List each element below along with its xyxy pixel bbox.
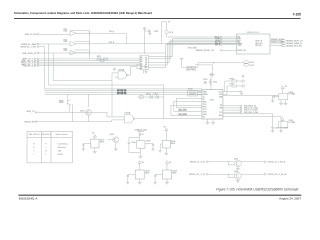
svg-text:Q923: Q923 — [234, 159, 238, 161]
U920 right pin fold 4 — [149, 43, 221, 65]
svg-text:E921: E921 — [250, 62, 254, 64]
USB data wire D- — [195, 63, 213, 68]
R927 pullup row2 — [223, 85, 245, 95]
wire USB_5V_EN input — [39, 33, 70, 35]
regulator3 right cap — [145, 144, 155, 151]
wire label TX_EN — [27, 111, 35, 113]
R926 pullup row1 — [225, 75, 245, 92]
SB9600 pin left labels — [214, 37, 220, 47]
SB9600 exit wire 2 — [270, 42, 282, 44]
svg-text:E922: E922 — [250, 65, 254, 67]
svg-text:UNSW_B+_RAW: UNSW_B+_RAW — [21, 43, 37, 46]
USB series resistors — [182, 66, 198, 68]
U920 pin labels — [140, 56, 147, 70]
RS232 row1 component label — [234, 159, 238, 161]
U920 right pin fold 2 — [149, 40, 221, 59]
regulator1 labels — [92, 133, 104, 144]
folded IC pin wire 1 — [176, 98, 202, 107]
RS232 row1 transistor Q923 — [235, 160, 242, 170]
buffer labels — [64, 22, 174, 59]
svg-text:7-105: 7-105 — [293, 13, 301, 17]
svg-text:RS232: RS232 — [58, 154, 63, 156]
NAND1 power stub — [113, 68, 116, 71]
wire vertical drop A — [45, 47, 203, 89]
regulator4 box — [162, 140, 170, 148]
bus wire 4 — [39, 63, 140, 65]
USB output wires to pads — [223, 106, 240, 112]
regulatorB power — [165, 161, 168, 170]
svg-text:Figure 7-105. HUE4040A USB/RS2: Figure 7-105. HUE4040A USB/RS232/SB9600 … — [216, 187, 299, 191]
U920 right pin fold 3 — [149, 42, 221, 63]
folded IC pin wire 2 — [174, 101, 202, 111]
footer date — [279, 197, 301, 201]
svg-text:RXD_B: RXD_B — [109, 42, 114, 44]
RS232 row2 terminal — [206, 173, 208, 175]
SB9600 connector box — [237, 34, 271, 54]
NAND gate U922A — [115, 71, 128, 79]
svg-text:Dead Battery: Dead Battery — [58, 143, 68, 146]
svg-text:GNDB: GNDB — [237, 44, 241, 46]
wire TX_EN — [37, 112, 125, 117]
regulator4 label — [164, 126, 176, 145]
svg-text:REG: REG — [171, 143, 176, 145]
wire UNSW_CTRL input — [39, 46, 45, 48]
SB9600 exit labels — [271, 39, 303, 47]
regulatorA labels — [142, 162, 150, 174]
wire 232_EN — [37, 120, 125, 122]
transistor Q920 — [68, 94, 73, 121]
svg-text:SB9600_DATA: SB9600_DATA — [271, 41, 284, 44]
wire U921 row to caps B — [223, 116, 281, 126]
USB shield stub — [180, 58, 184, 67]
wire U921 to U922 — [223, 94, 279, 96]
svg-text:L: L — [46, 147, 47, 149]
RS232 row1 terminal — [206, 161, 208, 163]
svg-text:100K: 100K — [59, 102, 64, 104]
resonator label — [188, 89, 192, 91]
SB9600 exit flags — [282, 40, 286, 47]
folded wire label B — [179, 114, 188, 116]
SB9600 inside pin names — [237, 37, 262, 52]
svg-text:C922: C922 — [213, 82, 218, 84]
regulatorB labels — [169, 162, 177, 174]
SB9600 front label — [196, 50, 215, 52]
U921 name — [210, 100, 215, 102]
svg-text:REG: REG — [100, 142, 105, 144]
svg-text:TXD_B: TXD_B — [109, 31, 114, 33]
svg-text:RS232_EN: RS232_EN — [24, 121, 35, 123]
R926 label — [230, 78, 235, 80]
terminal 232_EN — [35, 121, 37, 123]
svg-text:USB_5V_EN: USB_5V_EN — [25, 34, 37, 36]
svg-text:R925: R925 — [64, 48, 68, 50]
RS232 row1 right terminal — [264, 161, 266, 163]
capacitor C920 at U920 top — [145, 30, 152, 35]
regulator3 top label — [135, 129, 147, 133]
wire buffer1 output — [76, 33, 237, 44]
diode network D921 — [138, 95, 164, 99]
mode table data — [33, 143, 67, 157]
RS232 row2 label — [189, 174, 206, 176]
svg-text:SB9600_BUS_EN: SB9600_BUS_EN — [286, 45, 302, 47]
svg-text:R922: R922 — [97, 56, 101, 58]
svg-text:RS232_DI_3_3V: RS232_DI_3_3V — [190, 162, 206, 164]
header rule — [14, 18, 301, 20]
R927 label — [230, 83, 235, 85]
ferrite bead E921 — [244, 61, 249, 66]
svg-text:BUS_OUT: BUS_OUT — [256, 43, 263, 45]
regulator4 power — [165, 128, 168, 140]
resistor network RN920 — [117, 89, 126, 94]
svg-text:B1: B1 — [145, 58, 147, 60]
header title text — [14, 11, 152, 15]
U920 IC box — [140, 55, 149, 73]
svg-text:RS232_DO_2_8V_A: RS232_DO_2_8V_A — [268, 173, 287, 176]
svg-text:Y920: Y920 — [188, 89, 192, 91]
svg-text:BUS_TX: BUS_TX — [27, 111, 35, 113]
cap stack labels — [275, 127, 288, 129]
U921 bottom grounds — [206, 119, 216, 124]
bus wire 2 — [39, 60, 140, 62]
regulator4 grounds — [159, 144, 169, 155]
USB pad terminals — [240, 105, 242, 113]
buffer U901B — [70, 41, 126, 46]
wire buffer chain vertical — [88, 31, 90, 59]
svg-text:5V_B: 5V_B — [169, 32, 173, 34]
regulator2 label — [110, 134, 115, 136]
mode table header text — [29, 133, 68, 136]
cap stack A — [271, 126, 274, 133]
U921 top power arrow — [210, 73, 213, 90]
regulator3 power — [139, 133, 141, 141]
footer rule — [18, 194, 301, 196]
svg-text:J920 USB: J920 USB — [188, 47, 198, 49]
regulator2 transistor — [108, 137, 119, 151]
SB9600 pin wires — [222, 37, 236, 50]
svg-text:UNSW_5V_USB: UNSW_5V_USB — [135, 129, 147, 131]
svg-text:RS232_DO_3_3V: RS232_DO_3_3V — [189, 174, 206, 176]
left wire terminals — [37, 34, 39, 67]
tall loop to VBUS detect — [162, 22, 169, 43]
svg-text:Boot Flash: Boot Flash — [58, 146, 66, 149]
svg-text:U922A: U922A — [118, 69, 125, 72]
U920 right pin fold 1 — [149, 39, 221, 57]
regulator1 box — [91, 139, 99, 148]
RS232 row2 transistor Q924 — [235, 172, 242, 182]
svg-text:LP2980: LP2980 — [289, 94, 296, 96]
vertical join diode to NAND2 — [163, 85, 165, 119]
svg-text:B3: B3 — [145, 62, 147, 64]
USB data wire D+ — [198, 62, 244, 64]
svg-text:R926: R926 — [230, 78, 235, 80]
U921 IC box — [202, 90, 223, 120]
svg-text:August 24, 2007: August 24, 2007 — [279, 197, 301, 201]
svg-text:R927: R927 — [230, 83, 235, 85]
resistor R923 on bus — [100, 60, 104, 62]
bus wire 5 — [39, 65, 140, 67]
buffer U901C — [70, 50, 89, 55]
bypass cap row3 — [223, 91, 243, 96]
svg-text:Q924: Q924 — [234, 171, 238, 173]
mode table — [27, 131, 72, 163]
svg-text:RS232_DI_2_8V_A: RS232_DI_2_8V_A — [268, 161, 286, 164]
U921 top cap labels — [154, 31, 218, 84]
svg-text:RXL: RXL — [219, 115, 222, 117]
svg-text:C921: C921 — [203, 79, 208, 81]
wire top row 37 — [168, 36, 221, 38]
svg-text:SB9600_FRONT_OR: SB9600_FRONT_OR — [196, 50, 215, 52]
svg-text:REG: REG — [172, 172, 177, 174]
wire label 232_EN — [24, 121, 35, 123]
bus wire 3 — [39, 61, 140, 63]
svg-text:L: L — [34, 154, 35, 156]
svg-text:SB9600 FLEX: SB9600 FLEX — [247, 32, 260, 34]
svg-text:BUS_EN: BUS_EN — [256, 45, 262, 47]
NAND2 output wire — [135, 118, 202, 120]
svg-text:R929: R929 — [191, 70, 196, 72]
svg-text:B2: B2 — [145, 60, 147, 62]
SB9600 pin terminals — [221, 36, 223, 51]
U921 pin rows left — [203, 92, 208, 119]
regulatorA cap and grounds — [126, 175, 142, 185]
svg-text:L: L — [34, 151, 35, 153]
U920 right pin fold 5 — [149, 45, 221, 68]
svg-text:Q922: Q922 — [110, 134, 115, 136]
wire U921 row to caps A — [223, 114, 273, 126]
NAND1 output RC — [128, 64, 149, 75]
wire UNSW_B+ input — [39, 43, 70, 45]
SB9600 exit wire 3 — [270, 45, 282, 47]
transistor Q921 — [86, 94, 92, 121]
wire vertical drop B — [49, 44, 164, 85]
U921 top caps — [204, 79, 212, 85]
svg-text:C926: C926 — [283, 127, 288, 129]
bus2 wire 3 — [45, 92, 203, 94]
SB9600 box title — [247, 32, 260, 34]
svg-text:GND_B: GND_B — [215, 44, 220, 46]
svg-text:D922: D922 — [154, 93, 159, 95]
bus2 wire 2 — [45, 90, 203, 92]
svg-text:R928: R928 — [186, 70, 191, 72]
U922 labels — [285, 86, 295, 95]
RS232 row2 component label — [234, 171, 238, 173]
svg-text:C930: C930 — [131, 142, 136, 144]
svg-text:SUPPLY: SUPPLY — [138, 131, 145, 133]
svg-text:U922B: U922B — [125, 113, 132, 115]
svg-text:LP2980: LP2980 — [289, 122, 296, 124]
resonator Y920 — [188, 91, 203, 97]
folded wire label A — [179, 110, 188, 112]
RS232 row1 wire — [208, 162, 263, 165]
U922 regulator — [271, 86, 288, 105]
NAND1 input vertical — [112, 73, 115, 117]
regulatorB cap and grounds — [154, 175, 170, 185]
RS232 row1 right label — [268, 161, 286, 164]
svg-text:C920: C920 — [154, 31, 159, 33]
bus2 wire 4 — [45, 93, 203, 95]
bus wire 1 — [39, 58, 140, 60]
svg-text:U921: U921 — [210, 100, 215, 102]
svg-text:6816532H01-A: 6816532H01-A — [19, 196, 38, 200]
left wire labels — [20, 34, 37, 67]
U923 labels — [289, 120, 296, 124]
svg-text:R921: R921 — [64, 29, 68, 31]
svg-text:C925: C925 — [275, 127, 280, 129]
U921 pin rows right — [219, 92, 223, 118]
regulator1 cap and grounds — [82, 144, 97, 154]
regulator3 left loop cap — [128, 138, 143, 159]
figure caption — [216, 187, 299, 191]
svg-text:UNSW_B+_CTRL: UNSW_B+_CTRL — [20, 46, 37, 48]
footer part number — [19, 196, 38, 200]
ferrite labels — [250, 62, 254, 67]
USB pad labels — [244, 105, 259, 113]
header page number 7-105 — [293, 13, 301, 17]
SB9600 exit wire 1 — [270, 40, 282, 42]
svg-text:USB_VBUS_5V: USB_VBUS_5V — [22, 53, 37, 55]
regulator1 power — [93, 134, 96, 139]
transistor labels — [59, 69, 158, 115]
U923 regulator — [279, 118, 288, 128]
cap stack B — [279, 126, 282, 133]
USB resistor labels — [186, 70, 196, 72]
regulator3 labels — [131, 134, 151, 144]
buffer U901A — [70, 31, 89, 36]
svg-text:BUSY_IN: BUSY_IN — [256, 41, 262, 43]
wire USB_VBUS input — [39, 52, 166, 54]
svg-text:USB_MODE_B*: USB_MODE_B* — [41, 134, 52, 136]
USB ground mid — [211, 65, 215, 76]
svg-text:FRONT_OR: FRONT_OR — [237, 50, 246, 52]
RS232 row1 label — [190, 162, 206, 164]
svg-text:TXL: TXL — [219, 112, 222, 114]
svg-text:L: L — [46, 154, 47, 156]
RS232 row2 right label — [268, 173, 287, 176]
regulatorB box — [163, 170, 172, 179]
wire vertical drop C — [53, 53, 112, 81]
resistor R922 on bus — [97, 58, 108, 60]
svg-text:Q921: Q921 — [80, 111, 85, 113]
RS232 row2 right terminal — [264, 173, 266, 175]
terminal TX_EN — [35, 112, 37, 114]
svg-text:R924: R924 — [64, 39, 68, 41]
folded IC pin wire 3 — [171, 105, 202, 115]
svg-text:U926: U926 — [146, 141, 151, 143]
svg-text:D921: D921 — [146, 93, 151, 95]
regulator3 box — [137, 141, 145, 149]
svg-text:USB_RX_3_3V: USB_RX_3_3V — [23, 66, 37, 68]
svg-text:Schematics, Component Location: Schematics, Component Location Diagrams,… — [14, 11, 152, 15]
RS232 row2 wire — [208, 174, 263, 177]
svg-text:USB_GND_CONN: USB_GND_CONN — [244, 112, 259, 114]
regulatorA box — [135, 170, 144, 179]
regulatorA power — [138, 161, 141, 170]
svg-text:REG: REG — [145, 172, 150, 174]
junction dot USB — [213, 62, 214, 63]
power 5V arrow above U920 — [143, 27, 146, 54]
J920 USB connector label — [188, 47, 198, 49]
NAND gate U922B — [125, 115, 135, 123]
